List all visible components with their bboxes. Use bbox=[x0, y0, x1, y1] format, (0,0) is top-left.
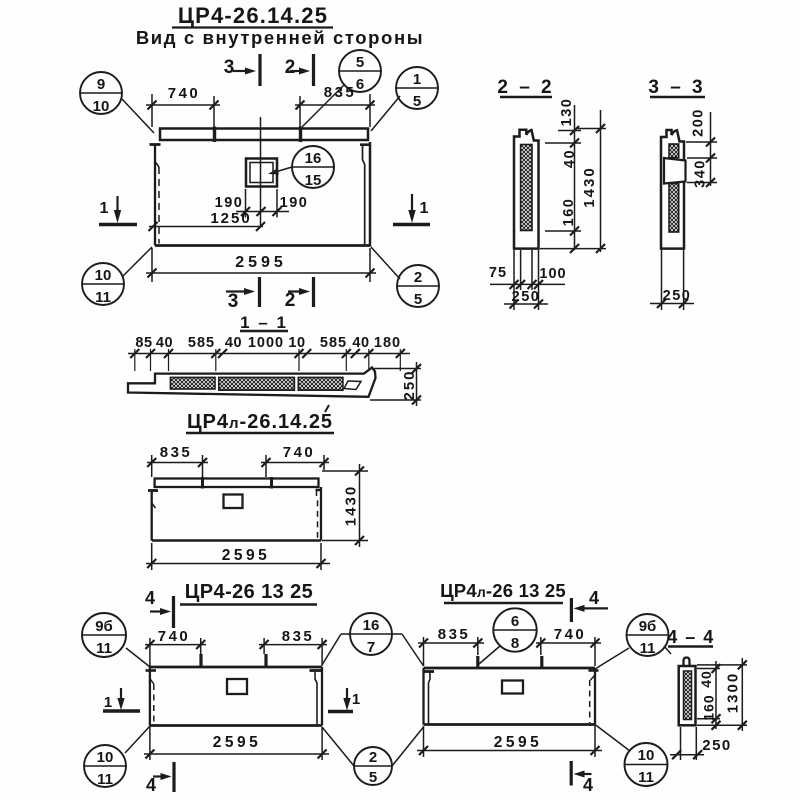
svg-text:8: 8 bbox=[511, 635, 519, 652]
bottom right panel tab 1 bbox=[476, 656, 479, 668]
dimension 835 top bbox=[295, 84, 375, 127]
svg-text:10: 10 bbox=[638, 747, 655, 764]
svg-text:40: 40 bbox=[225, 335, 242, 351]
svg-text:2595: 2595 bbox=[213, 734, 261, 751]
svg-text:740: 740 bbox=[554, 626, 587, 643]
svg-text:4 – 4: 4 – 4 bbox=[667, 627, 715, 647]
dimension 75/100 2-2 bbox=[489, 250, 567, 310]
title ЦР4л-26 13 25 bbox=[440, 580, 566, 603]
leader 10/11 bbox=[122, 247, 152, 277]
bottom left panel top edge bbox=[150, 666, 322, 669]
svg-text:4: 4 bbox=[589, 588, 599, 608]
leader 9б/11 right bbox=[595, 648, 629, 669]
svg-text:835: 835 bbox=[160, 444, 193, 461]
section mark 1 left bbox=[99, 196, 137, 225]
dimension 250 section 1-1 bbox=[370, 362, 421, 406]
svg-text:250: 250 bbox=[702, 737, 732, 754]
svg-text:250: 250 bbox=[512, 289, 541, 305]
dimension 130/40/160 line 2-2 bbox=[545, 98, 581, 253]
dimension 740 bottom left bbox=[145, 628, 206, 666]
dimension 2595 top drawing bbox=[146, 248, 376, 282]
section 4-4 column outline bbox=[679, 666, 696, 725]
svg-text:16: 16 bbox=[363, 617, 380, 634]
leader 5/6 bbox=[300, 84, 345, 129]
svg-text:16: 16 bbox=[305, 150, 322, 167]
section mark 1 right bbox=[393, 194, 430, 225]
bottom right panel left inner edge bbox=[429, 672, 431, 725]
svg-text:1300: 1300 bbox=[724, 672, 741, 713]
dimension 1250 bbox=[149, 210, 266, 231]
dimension 2595 bottom left bbox=[144, 727, 329, 760]
section mark 3 bottom bbox=[226, 277, 260, 312]
svg-text:6: 6 bbox=[511, 613, 519, 630]
bottom left panel left dashed bbox=[153, 684, 155, 723]
title 4-4 bbox=[667, 627, 715, 647]
svg-text:4: 4 bbox=[583, 775, 593, 795]
section mark 4 bottom left drawing bbox=[146, 762, 174, 795]
middle panel joint tick left bbox=[201, 477, 204, 489]
section 3-3 hatch lower bbox=[669, 184, 679, 233]
section mark 1 right bottom drawing bbox=[328, 688, 360, 712]
bottom left panel right tick bbox=[310, 669, 323, 672]
svg-text:1000: 1000 bbox=[248, 335, 284, 351]
middle panel left notch bbox=[152, 503, 156, 508]
title ЦР4-26 13 25 bbox=[180, 581, 317, 605]
svg-text:4: 4 bbox=[146, 775, 156, 795]
section mark 2 top bbox=[285, 54, 314, 86]
panel right edge tick bbox=[360, 143, 371, 146]
svg-text:11: 11 bbox=[95, 289, 111, 306]
balloon 9б/11 bbox=[82, 613, 126, 657]
bottom right panel top edge bbox=[424, 667, 596, 670]
dimension 835 bottom left bbox=[259, 628, 327, 666]
balloon 6/8 bbox=[493, 608, 537, 652]
svg-text:835: 835 bbox=[282, 628, 315, 645]
bottom left panel tab 1 bbox=[199, 654, 202, 667]
svg-text:1: 1 bbox=[413, 71, 421, 88]
opening square outer bbox=[246, 159, 277, 187]
svg-text:2: 2 bbox=[285, 290, 296, 311]
svg-text:2595: 2595 bbox=[494, 734, 542, 751]
bottom right panel opening bbox=[502, 681, 523, 694]
panel left notch bbox=[155, 162, 159, 168]
svg-text:3: 3 bbox=[228, 291, 239, 312]
middle panel right edge tick bbox=[316, 489, 322, 492]
panel body outline bbox=[155, 142, 370, 247]
balloon 16/7 bbox=[350, 613, 392, 656]
dimension 740 bottom right bbox=[536, 626, 601, 666]
bottom right panel right notch bbox=[591, 675, 596, 680]
svg-text:180: 180 bbox=[374, 335, 401, 351]
svg-text:585: 585 bbox=[188, 335, 215, 351]
bottom left panel opening bbox=[227, 679, 247, 694]
title ЦР4л-26.14.25 bbox=[186, 405, 334, 433]
leader 9б/11 short bbox=[664, 646, 671, 654]
balloon 5/6 bbox=[339, 50, 381, 93]
balloon 10/11 left bbox=[84, 745, 127, 788]
svg-text:585: 585 bbox=[320, 335, 347, 351]
section 3-3 blockout bbox=[664, 158, 686, 184]
leader 1/5 bbox=[371, 96, 400, 131]
svg-text:3 – 3: 3 – 3 bbox=[648, 77, 705, 98]
section 1-1 hatch 1 bbox=[170, 377, 215, 389]
leader 10/11 right bbox=[595, 725, 630, 752]
opening square inner bbox=[250, 163, 273, 183]
leader 9б/11 bbox=[126, 648, 150, 667]
svg-text:250: 250 bbox=[663, 288, 692, 304]
svg-text:85: 85 bbox=[135, 335, 152, 351]
svg-text:1: 1 bbox=[104, 694, 112, 711]
section 4-4 lifting loop bbox=[684, 658, 690, 667]
section mark 4 top right drawing bbox=[571, 588, 608, 622]
svg-text:5: 5 bbox=[414, 291, 422, 308]
bottom right panel outline bbox=[424, 668, 596, 725]
leader 6/8 bbox=[478, 646, 500, 665]
section mark 4 top left drawing bbox=[145, 588, 174, 628]
svg-text:40: 40 bbox=[352, 335, 369, 351]
bottom left panel right inner edge bbox=[315, 671, 317, 726]
dimension 1300 4-4 bbox=[697, 658, 747, 731]
svg-text:5: 5 bbox=[369, 769, 377, 786]
svg-text:5: 5 bbox=[356, 54, 364, 71]
section 2-2 insulation hatch bbox=[521, 145, 532, 231]
bottom left panel outline bbox=[150, 667, 322, 726]
section mark 1 left bottom drawing bbox=[103, 688, 140, 711]
panel top strip bbox=[160, 129, 368, 141]
svg-text:40: 40 bbox=[698, 670, 714, 688]
leader 9/10 bbox=[122, 99, 154, 133]
svg-text:Вид с внутренней стороны: Вид с внутренней стороны bbox=[136, 27, 424, 48]
balloon 2/5 bottom bbox=[354, 747, 392, 786]
svg-text:100: 100 bbox=[539, 266, 566, 282]
svg-text:11: 11 bbox=[638, 769, 654, 786]
svg-text:9: 9 bbox=[97, 76, 105, 93]
svg-text:40: 40 bbox=[156, 335, 173, 351]
title 3-3 bbox=[648, 77, 705, 98]
svg-text:1 – 1: 1 – 1 bbox=[240, 313, 288, 332]
svg-text:15: 15 bbox=[305, 172, 322, 189]
svg-text:130: 130 bbox=[559, 98, 575, 127]
leader 16/7 lines bbox=[322, 634, 424, 666]
svg-text:ЦР4-26.14.25: ЦР4-26.14.25 bbox=[178, 3, 328, 28]
svg-text:ЦР4-26 13 25: ЦР4-26 13 25 bbox=[185, 581, 313, 603]
balloon 10/11 right bbox=[625, 743, 669, 786]
title 2-2 bbox=[497, 77, 554, 98]
dimension row section 1-1 bbox=[135, 335, 401, 351]
svg-text:75: 75 bbox=[489, 265, 507, 281]
svg-text:40: 40 bbox=[562, 149, 578, 168]
dimension 835 middle panel bbox=[147, 444, 208, 477]
leader 16/15 arrow bbox=[268, 167, 292, 175]
svg-text:740: 740 bbox=[168, 85, 201, 102]
dimension 2595 middle panel bbox=[146, 543, 330, 570]
balloon 10/11 bbox=[82, 263, 124, 306]
balloon 1/5 bbox=[396, 67, 438, 110]
dimension 250 3-3 bbox=[650, 250, 694, 310]
svg-text:1430: 1430 bbox=[581, 166, 598, 207]
svg-text:11: 11 bbox=[640, 640, 656, 657]
svg-text:11: 11 bbox=[96, 640, 112, 657]
section 1-1 hatch 3 bbox=[298, 377, 343, 390]
bottom left panel tab 2 bbox=[264, 654, 267, 667]
svg-text:2595: 2595 bbox=[235, 254, 287, 271]
dimension 1430 2-2 bbox=[540, 110, 606, 253]
svg-text:10: 10 bbox=[97, 749, 114, 766]
svg-text:ЦР4л-26 13 25: ЦР4л-26 13 25 bbox=[440, 580, 566, 601]
svg-text:835: 835 bbox=[324, 84, 357, 101]
svg-text:1: 1 bbox=[420, 200, 429, 217]
dimension 190 190 bbox=[215, 189, 309, 218]
balloon 9б/11 right bbox=[627, 614, 669, 657]
joint tick right bbox=[299, 127, 302, 143]
middle panel body outline bbox=[152, 487, 321, 541]
section 3-3 column outline bbox=[661, 130, 684, 249]
svg-text:2: 2 bbox=[369, 749, 377, 766]
svg-text:6: 6 bbox=[356, 76, 364, 93]
dimension 740 top bbox=[146, 85, 220, 127]
bottom right panel left tick bbox=[423, 670, 434, 673]
svg-text:2: 2 bbox=[414, 269, 422, 286]
svg-text:160: 160 bbox=[701, 694, 717, 720]
dimension 740 middle panel bbox=[261, 444, 329, 477]
svg-text:190: 190 bbox=[215, 195, 244, 211]
section 4-4 hatch bbox=[684, 671, 692, 720]
svg-text:190: 190 bbox=[280, 195, 309, 211]
section line 3-3 trace bbox=[260, 117, 262, 227]
svg-text:11: 11 bbox=[97, 771, 113, 788]
bottom right panel right tick bbox=[589, 669, 599, 672]
dimension 200/340 3-3 bbox=[686, 108, 717, 188]
section mark 3 top bbox=[224, 54, 260, 86]
leader 10/11 left bbox=[125, 726, 150, 753]
svg-text:740: 740 bbox=[158, 628, 191, 645]
middle panel top strip bbox=[155, 479, 319, 488]
svg-text:200: 200 bbox=[691, 108, 707, 137]
section 2-2 column outline bbox=[514, 130, 539, 249]
svg-text:740: 740 bbox=[283, 444, 316, 461]
panel left edge tick bbox=[150, 143, 161, 146]
svg-text:4: 4 bbox=[145, 588, 155, 608]
svg-text:250: 250 bbox=[401, 369, 418, 400]
svg-text:10: 10 bbox=[95, 267, 112, 284]
balloon 16/15 bbox=[292, 146, 334, 189]
middle panel joint tick right bbox=[270, 477, 273, 489]
middle panel opening bbox=[224, 495, 243, 509]
svg-text:2595: 2595 bbox=[222, 547, 270, 564]
dimension 250 2-2 bbox=[504, 289, 548, 309]
section 1-1 slab outline bbox=[128, 368, 376, 397]
svg-text:5: 5 bbox=[413, 93, 421, 110]
section 3-3 hatch upper bbox=[669, 144, 679, 158]
leader 2/5 lines bbox=[322, 727, 424, 766]
svg-text:3: 3 bbox=[224, 57, 235, 78]
svg-text:2 – 2: 2 – 2 bbox=[497, 77, 554, 98]
bottom right panel right dashed bbox=[589, 680, 591, 723]
svg-text:1: 1 bbox=[352, 691, 360, 708]
svg-text:10: 10 bbox=[93, 98, 110, 115]
svg-text:9б: 9б bbox=[639, 618, 657, 635]
bottom right panel tab 2 bbox=[540, 656, 543, 668]
dimension line section 1-1 bbox=[128, 349, 410, 371]
dimension 250 4-4 bbox=[670, 727, 732, 760]
section mark 2 bottom bbox=[285, 277, 314, 311]
dimension 835 bottom right bbox=[418, 626, 484, 666]
panel right inner edge bbox=[363, 145, 365, 246]
section 1-1 hatch 2 bbox=[219, 377, 295, 390]
balloon 2/5 bbox=[397, 265, 439, 308]
bottom left panel left notch bbox=[150, 679, 154, 685]
svg-text:2: 2 bbox=[285, 57, 296, 78]
svg-text:1: 1 bbox=[100, 200, 109, 217]
section mark 4 bottom right drawing bbox=[571, 761, 593, 795]
dimension 1430 middle panel bbox=[322, 464, 368, 547]
title ЦР4-26.14.25 bbox=[172, 3, 333, 28]
bottom left panel left tick bbox=[146, 669, 157, 672]
svg-text:9б: 9б bbox=[95, 618, 113, 635]
svg-text:835: 835 bbox=[438, 626, 471, 643]
svg-text:340: 340 bbox=[693, 159, 709, 188]
dimension 40/160 4-4 bbox=[697, 661, 721, 730]
leader 2/5 bbox=[371, 247, 400, 279]
panel left dashed line bbox=[158, 167, 160, 244]
svg-text:7: 7 bbox=[367, 639, 375, 656]
svg-text:1430: 1430 bbox=[343, 485, 360, 526]
title 1-1 bbox=[240, 313, 288, 332]
section 1-1 joint key bbox=[344, 381, 361, 390]
joint tick left bbox=[213, 127, 216, 143]
middle panel left edge tick bbox=[148, 489, 158, 492]
svg-text:ЦР4л-26.14.25: ЦР4л-26.14.25 bbox=[187, 411, 333, 433]
middle panel right inner dashed bbox=[317, 490, 318, 540]
svg-text:1250: 1250 bbox=[210, 210, 251, 227]
balloon 9/10 bbox=[80, 72, 122, 115]
svg-text:160: 160 bbox=[561, 198, 577, 227]
dimension 2595 bottom right bbox=[417, 726, 602, 757]
